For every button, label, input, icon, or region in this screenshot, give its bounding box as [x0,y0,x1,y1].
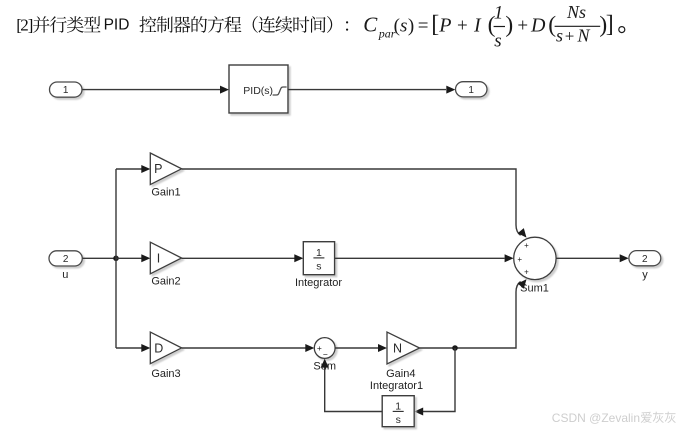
svg-text:2: 2 [642,254,648,265]
svg-text:+: + [317,343,322,353]
outport 2 [629,251,661,266]
svg-text:Ns: Ns [566,2,586,22]
svg-text:+: + [457,15,468,36]
svg-text:s: s [556,26,563,46]
svg-text:1: 1 [468,85,474,96]
wire to Gain3 [116,347,142,349]
svg-text:): ) [505,12,513,38]
arrowhead into PID [220,86,229,94]
svg-text:+: + [524,241,529,250]
svg-text:N: N [393,341,402,355]
wire Gain4 to Sum1 bottom [420,282,521,349]
svg-text:]: ] [28,15,34,34]
svg-text:CSDN @Zevalin: CSDN @Zevalin [552,411,640,425]
sum Sum (small) [314,338,335,360]
svg-text:s: s [494,30,501,51]
svg-text:1: 1 [316,247,322,259]
arrowhead into outport1 [446,86,455,94]
svg-text:D: D [154,341,163,355]
arrowhead into Integrator [294,254,303,262]
svg-text:PID(s): PID(s) [243,85,273,97]
wire Integrator1 to Sum bottom [325,363,383,412]
wire Gain1 to Sum1 top [182,169,521,235]
arrowhead into outport2 [620,254,629,262]
svg-text:+: + [517,255,522,264]
wire Sum to Gain4 [335,347,378,349]
svg-text:C: C [363,12,378,36]
svg-text:): ) [408,15,414,36]
svg-text:N: N [577,26,591,46]
svg-text:1: 1 [494,3,504,24]
junction dot [113,255,119,261]
arrowhead into Sum1 top [518,228,527,238]
gain Gain4 (N) [387,332,420,364]
svg-text:P: P [154,162,162,176]
svg-text:+: + [565,27,575,46]
svg-text:+: + [517,15,528,36]
arrowhead into Sum bottom [321,359,329,368]
svg-text:u: u [62,269,68,281]
svg-text:1: 1 [63,85,69,96]
block PID(s) [229,65,288,113]
block Integrator (1/s) [303,242,334,275]
wire Sum1 to outport2 [556,257,619,259]
gain Gain3 (D) [150,332,181,364]
arrowhead into Integrator1 right [414,408,423,416]
arrowhead into Gain3 [141,344,150,352]
svg-text:Gain4: Gain4 [386,368,415,380]
arrowhead into Gain1 [141,165,150,173]
block Integrator1 (1/s) [382,396,414,427]
svg-text:2: 2 [63,254,69,265]
svg-text:Integrator1: Integrator1 [370,380,423,392]
svg-text:Gain3: Gain3 [151,368,180,380]
svg-text:+: + [524,268,529,277]
arrowhead into Gain4 [378,344,387,352]
svg-text:s: s [396,414,401,426]
svg-text:I: I [157,251,160,265]
wire feedback down to Integrator1 [423,348,455,412]
junction dot at Gain4 output [452,345,458,351]
watermark CJK 爱灰灰 [641,412,676,423]
wire branch vertical [115,169,117,348]
title text CJK 控制器的方程（连续时间）： [139,16,348,33]
wire to Gain1 [116,168,142,170]
wire Gain3 to Sum [182,347,306,349]
arrowhead into Gain2 [141,254,150,262]
wire Integrator to Sum1 [335,257,505,259]
arrowhead into Sum1 bottom [518,279,527,289]
sum Sum1 [514,237,556,279]
title text CJK 并行类型 [33,16,100,33]
arrowhead into Sum1 left [505,254,514,262]
svg-text:P: P [438,14,451,36]
svg-text:y: y [642,269,648,281]
wire inport2 to junction [83,257,116,259]
svg-text:−: − [323,350,328,360]
arrowhead into Sum left [305,344,314,352]
svg-text:s: s [316,261,321,273]
gain Gain2 (I) [150,242,181,274]
svg-text:(: ( [548,12,556,38]
svg-text:PID: PID [104,16,130,33]
svg-text:Integrator: Integrator [295,277,342,289]
svg-text:[: [ [431,12,439,38]
inport 2 [49,251,82,266]
svg-text:I: I [473,14,482,36]
svg-text:Gain2: Gain2 [151,276,180,288]
inport 1 [50,82,83,97]
wire inport1 to PID [83,89,221,91]
svg-text:Gain1: Gain1 [151,186,180,198]
outport 1 [456,82,488,97]
svg-text:D: D [530,14,546,36]
gain Gain1 (P) [150,153,181,185]
svg-text:1: 1 [395,400,401,412]
wire Gain2 to Integrator [182,257,295,259]
svg-text:]: ] [606,12,614,38]
svg-text:(: ( [394,15,400,36]
svg-text:s: s [400,15,407,36]
svg-text:=: = [418,15,429,36]
formula C_par(s) = [P + I(1/s) + D(Ns/(s+N))] [363,2,625,51]
wire PID to outport1 [288,89,446,91]
wire to Gain2 [116,257,142,259]
